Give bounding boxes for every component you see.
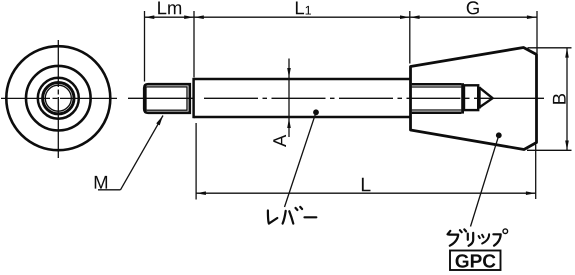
arrow A bottom (287, 118, 291, 128)
side view centerline solid lead (128, 97, 193, 99)
cone tip (478, 87, 481, 109)
side view centerline solid tail (474, 97, 544, 99)
extension line L left (195, 123, 197, 200)
neck section (464, 85, 478, 110)
extension line B bottom (527, 149, 572, 151)
GPC code text (456, 254, 496, 267)
cone point (479, 88, 492, 108)
extension line grip face (409, 11, 411, 64)
front view thread major circle (43, 83, 74, 114)
front view vertical centerline (57, 40, 59, 158)
top dimension line (145, 16, 537, 18)
label L (362, 178, 371, 191)
lever rod bottom edge (194, 116, 411, 119)
embedded thread bottom edge (412, 111, 462, 114)
extension line rod face (193, 11, 195, 77)
label A (273, 135, 286, 147)
arrow G left (410, 15, 420, 19)
GPC code box (450, 251, 501, 271)
embedded thread top edge (412, 83, 462, 86)
label gurippu katakana pu (493, 229, 507, 246)
extension line stub left (144, 11, 146, 82)
label gurippu katakana gu (448, 229, 467, 245)
extension line B top (528, 47, 572, 49)
arrow B top (565, 48, 569, 58)
L dimension line (196, 192, 536, 194)
arrow L1 left (194, 15, 204, 19)
label rebaa katakana re (268, 211, 277, 224)
lever rod top edge (194, 78, 411, 81)
threaded stub root line box (146, 87, 187, 110)
front view lever rod circle (38, 78, 79, 119)
front view grip small-end circle (26, 66, 91, 131)
extension line grip right top (536, 11, 538, 54)
grip leader dot (496, 132, 502, 138)
front view thread root circle (45, 85, 71, 111)
label rebaa katakana long bar (305, 216, 317, 218)
label M (95, 176, 107, 189)
label Lm (158, 1, 181, 14)
lever leader dot (313, 109, 319, 115)
M leader arrowhead (156, 116, 163, 126)
extension line L right (535, 145, 537, 200)
M leader underline (98, 189, 121, 191)
grip outline (411, 48, 537, 150)
embedded thread root top line (412, 86, 462, 88)
thread end face (461, 83, 464, 113)
label G (467, 1, 479, 14)
side view centerline chain (204, 97, 474, 99)
front view outer grip circle (6, 46, 110, 150)
threaded stub outline (144, 84, 190, 113)
B dimension line (566, 48, 568, 151)
arrow Lm left (145, 15, 155, 19)
A dimension line (288, 59, 290, 138)
front view horizontal centerline (1, 97, 117, 99)
embedded thread root bottom line (412, 109, 462, 111)
label rebaa katakana ba (283, 207, 303, 224)
arrow L right (526, 191, 536, 195)
label gurippu katakana small tsu (479, 234, 490, 243)
arrow L1 right (400, 15, 410, 19)
arrow B bottom (565, 141, 569, 151)
label B (553, 94, 566, 104)
arrow G right (527, 15, 537, 19)
arrow Lm right (184, 15, 194, 19)
grip leader line (471, 135, 499, 226)
label L1 (296, 1, 311, 14)
lever leader line (285, 112, 317, 207)
arrow L left (196, 191, 206, 195)
arrow A top (287, 68, 291, 78)
M leader line (121, 116, 164, 190)
label gurippu katakana ri (468, 233, 473, 246)
lever rod left face (192, 78, 195, 118)
